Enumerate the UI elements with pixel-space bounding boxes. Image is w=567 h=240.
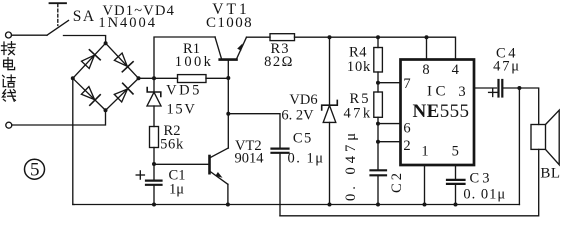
node supply/VD6 [328, 35, 332, 39]
svg-text:R4: R4 [349, 45, 367, 61]
wire main ground rail [73, 204, 520, 206]
node bridge bottom vertex [104, 108, 108, 112]
svg-text:5: 5 [452, 144, 459, 160]
node C4 output [517, 86, 521, 90]
wire supply rail R3 to pin4 [330, 37, 456, 59]
resistor R2 [150, 127, 159, 165]
svg-text:SA: SA [73, 8, 96, 25]
svg-text:C3: C3 [470, 170, 493, 186]
wire pin 1 to ground [424, 165, 426, 205]
node R2 / C1 / VT2 base [152, 162, 156, 166]
diode VD4 (bridge bottom-right) [106, 78, 139, 110]
resistor R3 [270, 34, 330, 41]
label Chinese hua (speech) [3, 75, 16, 87]
node C2 ground [376, 203, 380, 207]
svg-text:0. 047μ: 0. 047μ [343, 129, 359, 201]
node R4/R5/pin7 [376, 81, 380, 85]
svg-text:56k: 56k [160, 137, 184, 153]
resistor R5 [374, 83, 383, 124]
svg-text:10k: 10k [347, 59, 371, 75]
wire C4 node down to ground rail end [518, 88, 520, 205]
svg-text:8: 8 [422, 62, 429, 78]
svg-text:VD5: VD5 [166, 83, 202, 99]
wire pin 6 [378, 123, 401, 125]
node VD6 ground [328, 203, 332, 207]
svg-text:IC: IC [427, 84, 449, 100]
node figure number (5) [25, 159, 45, 181]
capacitor C4 (electrolytic) [474, 80, 519, 97]
svg-text:9014: 9014 [235, 151, 265, 167]
node supply/R4 [376, 35, 380, 39]
wire rectifier node up and over to VT1 collector [154, 37, 215, 78]
svg-text:7: 7 [403, 76, 410, 92]
label Chinese jie (connect) [2, 42, 16, 55]
wire terminal to switch [12, 34, 48, 36]
wire node to C5 [228, 114, 280, 148]
zener diode VD6 [322, 37, 338, 204]
svg-text:100k: 100k [175, 54, 214, 70]
transistor VT1 [215, 37, 247, 78]
capacitor C1 (electrolytic) [136, 164, 161, 205]
node pin1 ground [423, 203, 427, 207]
svg-text:NE555: NE555 [413, 101, 470, 122]
svg-text:0. 1μ: 0. 1μ [287, 151, 324, 167]
svg-text:C1008: C1008 [206, 15, 253, 31]
node pin2/C2 [376, 140, 380, 144]
wire bridge left vertex down to ground rail [73, 78, 74, 204]
capacitor C5 [272, 149, 289, 216]
wire bridge right vertex to supply node [139, 77, 155, 79]
diode VD2 (bridge top-right) [106, 43, 139, 78]
svg-text:82Ω: 82Ω [264, 54, 294, 70]
svg-text:15V: 15V [166, 101, 196, 117]
label Chinese dian (electric) [4, 58, 15, 70]
op-amp U1 IC NE555 box [401, 60, 475, 166]
node VT2 emitter ground [226, 203, 230, 207]
svg-text:47μ: 47μ [493, 59, 521, 75]
svg-text:VD6: VD6 [289, 92, 317, 108]
node bridge right vertex [137, 76, 141, 80]
terminal lower phone-line [6, 122, 12, 128]
svg-text:5: 5 [30, 160, 40, 181]
svg-text:C5: C5 [293, 131, 313, 147]
terminal upper phone-line [6, 32, 12, 38]
label Chinese xian (wire) [2, 90, 15, 102]
svg-text:1μ: 1μ [169, 182, 184, 198]
speaker BL [531, 110, 559, 165]
node supply/pin8 [425, 35, 429, 39]
wire VT1 emitter to R3 [247, 36, 271, 38]
svg-text:4: 4 [452, 62, 460, 78]
wire R5 node down to pin2 node [377, 124, 379, 142]
svg-text:2: 2 [403, 138, 410, 154]
svg-text:0. 01μ: 0. 01μ [463, 186, 506, 202]
svg-text:1: 1 [421, 144, 428, 160]
capacitor C2 [371, 142, 387, 205]
node VT1 base / R1 / VT2 collector [226, 76, 230, 80]
transistor VT2 [154, 78, 228, 205]
svg-text:C2: C2 [389, 170, 405, 193]
svg-text:6. 2V: 6. 2V [281, 108, 314, 124]
wire pin 2 [378, 141, 401, 143]
zener diode VD5 [147, 78, 161, 126]
node bridge top vertex [104, 41, 108, 45]
node VT2 collector / C5 branch [226, 112, 230, 116]
node C3 ground [454, 203, 458, 207]
switch SA [47, 3, 69, 35]
node C1 ground [152, 203, 156, 207]
wire lower terminal to bridge bottom [12, 110, 106, 125]
svg-text:3: 3 [458, 84, 465, 100]
node R5/pin6 [376, 122, 380, 126]
wire pin 8 [426, 37, 428, 59]
resistor R4 [374, 37, 383, 82]
svg-text:1N4004: 1N4004 [98, 15, 157, 31]
wire bottom return rail (C5 to speaker) [280, 149, 539, 215]
svg-text:6: 6 [403, 121, 410, 137]
wire C4 node to speaker [519, 88, 538, 125]
svg-text:BL: BL [540, 166, 560, 182]
wire switch to bridge top [64, 36, 106, 44]
svg-text:47k: 47k [344, 106, 373, 122]
diode VD1 (bridge left-top) [73, 43, 106, 78]
capacitor C3 [447, 165, 465, 205]
wire pin 7 [378, 82, 401, 84]
node bridge left vertex [71, 76, 75, 80]
diode VD3 (bridge left-bottom) [73, 78, 106, 110]
resistor R1 [154, 75, 228, 83]
node rectifier output [152, 76, 156, 80]
